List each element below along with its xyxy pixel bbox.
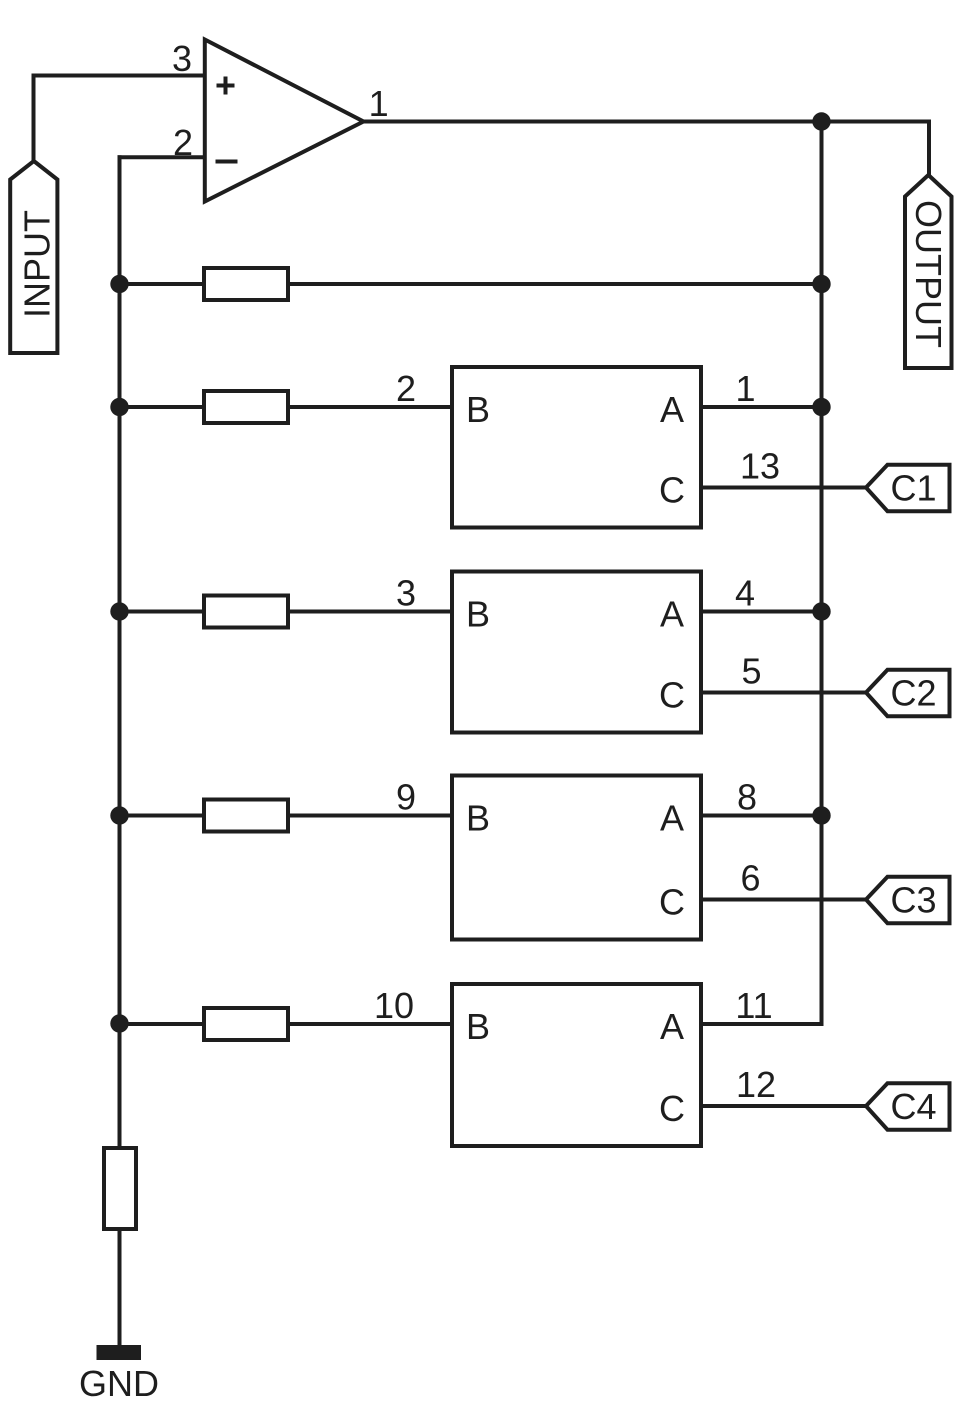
resistor R1 (feedback) <box>204 268 288 300</box>
svg-text:C: C <box>659 470 685 511</box>
svg-text:OUTPUT: OUTPUT <box>908 200 949 348</box>
wire resistor R5 to block U5 pin B <box>286 1022 452 1026</box>
tag C2 <box>866 670 950 716</box>
svg-text:B: B <box>466 389 490 430</box>
svg-text:3: 3 <box>172 38 192 79</box>
resistor R2 <box>204 391 288 423</box>
resistor R3 <box>204 596 288 628</box>
wire block U5 pin C to tag C4 <box>701 1104 866 1108</box>
wire INPUT tag to op-amp pin 3 <box>34 76 205 163</box>
block U4 <box>452 776 701 940</box>
svg-text:4: 4 <box>735 573 755 614</box>
wire left bus to resistor R5 <box>120 1022 207 1026</box>
wire resistor R3 to block U3 pin B <box>286 610 452 614</box>
svg-text:C: C <box>659 1088 685 1129</box>
svg-text:13: 13 <box>740 446 780 487</box>
svg-text:C: C <box>659 675 685 716</box>
ground symbol <box>97 1345 142 1360</box>
wire block U3 pin C to tag C2 <box>701 691 866 695</box>
svg-text:C4: C4 <box>890 1086 936 1127</box>
tag C3 <box>866 877 950 923</box>
junction dot left bus channel 4 <box>110 1014 128 1032</box>
svg-text:5: 5 <box>741 651 761 692</box>
wire left bus to resistor R2 <box>120 405 207 409</box>
svg-text:C: C <box>659 882 685 923</box>
svg-text:C3: C3 <box>890 880 936 921</box>
svg-text:B: B <box>466 1006 490 1047</box>
svg-text:11: 11 <box>735 985 772 1026</box>
wire left bus to resistor R1 <box>120 282 207 286</box>
svg-text:C1: C1 <box>890 468 936 509</box>
svg-text:A: A <box>660 389 684 430</box>
left bus wire <box>118 155 122 1148</box>
svg-text:10: 10 <box>374 985 414 1026</box>
wire op-amp output to OUTPUT tag <box>363 122 929 177</box>
wire left bus to resistor R4 <box>120 814 207 818</box>
wire block U4 pin C to tag C3 <box>701 898 866 902</box>
svg-text:B: B <box>466 594 490 635</box>
wire block U5 pin A to right bus <box>701 1022 822 1026</box>
svg-text:12: 12 <box>736 1064 776 1105</box>
wire block U2 pin A to right bus <box>701 405 822 409</box>
svg-text:A: A <box>660 1006 684 1047</box>
wire op-amp pin 2 to left bus <box>118 155 205 159</box>
block U2 <box>452 367 701 528</box>
junction dot left bus channel 1 <box>110 398 128 416</box>
svg-text:3: 3 <box>396 573 416 614</box>
tag C1 <box>866 465 950 511</box>
wire resistor R6 to ground <box>118 1229 122 1347</box>
resistor R4 <box>204 800 288 832</box>
wire block U3 pin A to right bus <box>701 610 822 614</box>
tag C4 <box>866 1083 950 1129</box>
svg-text:INPUT: INPUT <box>16 210 57 318</box>
INPUT tag <box>10 161 57 353</box>
svg-text:GND: GND <box>79 1363 159 1404</box>
svg-text:2: 2 <box>396 368 416 409</box>
wire block U4 pin A to right bus <box>701 814 822 818</box>
junction dot channel 3 / right bus <box>812 806 830 824</box>
wire resistor R1 to right bus <box>286 282 822 286</box>
svg-text:A: A <box>660 594 684 635</box>
svg-text:9: 9 <box>396 777 416 818</box>
block U3 <box>452 572 701 733</box>
wire resistor R2 to block U2 pin B <box>286 405 452 409</box>
junction dot left bus channel 2 <box>110 602 128 620</box>
svg-text:2: 2 <box>173 122 193 163</box>
junction dot left bus / feedback resistor <box>110 275 128 293</box>
right bus wire <box>820 122 824 1025</box>
svg-text:8: 8 <box>737 777 757 818</box>
svg-text:A: A <box>660 798 684 839</box>
junction dot feedback / right bus <box>812 275 830 293</box>
svg-text:6: 6 <box>740 858 760 899</box>
op-amp U1 <box>205 40 364 202</box>
svg-text:1: 1 <box>735 368 755 409</box>
wire resistor R4 to block U4 pin B <box>286 814 452 818</box>
svg-text:B: B <box>466 798 490 839</box>
junction dot channel 1 / right bus <box>812 398 830 416</box>
wire left bus to resistor R3 <box>120 610 207 614</box>
svg-text:C2: C2 <box>890 673 936 714</box>
block U5 <box>452 984 701 1146</box>
OUTPUT tag <box>905 175 952 368</box>
junction dot output / right bus <box>812 112 830 130</box>
resistor R5 <box>204 1008 288 1040</box>
junction dot left bus channel 3 <box>110 806 128 824</box>
junction dot channel 2 / right bus <box>812 602 830 620</box>
resistor R6 (input bias, vertical) <box>104 1148 136 1229</box>
svg-text:1: 1 <box>369 83 389 124</box>
wire block U2 pin C to tag C1 <box>701 486 866 490</box>
